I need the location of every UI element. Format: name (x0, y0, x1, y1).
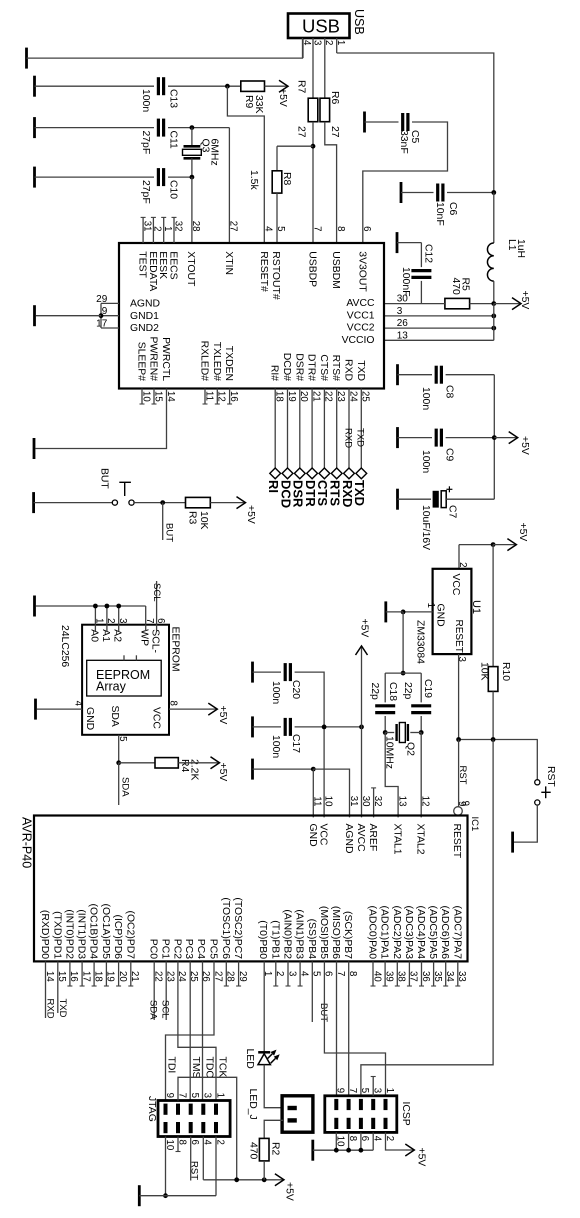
svg-text:A2: A2 (112, 629, 123, 642)
nc stub PA (421, 961, 423, 986)
svg-text:(INT0)PD2: (INT0)PD2 (63, 909, 74, 959)
svg-text:3: 3 (202, 1093, 213, 1098)
svg-text:(T1)PB1: (T1)PB1 (269, 920, 280, 959)
svg-text:EEDATA: EEDATA (147, 251, 158, 291)
svg-text:BUT: BUT (318, 1003, 329, 1022)
svg-text:(INT1)PD3: (INT1)PD3 (76, 909, 87, 959)
svg-text:5: 5 (189, 1093, 200, 1098)
ground (C8) (396, 364, 399, 385)
pin 22 SDA net stub (153, 961, 155, 1020)
svg-text:C9: C9 (444, 448, 455, 462)
capacitor C9 100n (435, 429, 438, 447)
ic U1 ZM33084 (458, 545, 460, 569)
inductor L1 1uH (493, 193, 495, 244)
svg-text:100n: 100n (420, 450, 431, 473)
wire TXD signal (360, 389, 362, 474)
svg-text:AVR-P40: AVR-P40 (20, 817, 34, 868)
node SDA/R4 (116, 760, 121, 765)
pin 3 USB D+ (312, 38, 314, 98)
wire CTS signal (323, 389, 325, 474)
node crystal bottom (190, 175, 195, 180)
wire +5V rail JTAG (203, 1179, 275, 1181)
node +5V/L1/R5 (491, 301, 496, 306)
ground (C6) (400, 182, 403, 203)
svg-text:C12: C12 (423, 244, 434, 263)
svg-text:A0: A0 (88, 629, 99, 642)
power +5V (FT232 supply) (494, 303, 521, 305)
svg-text:27pF: 27pF (140, 131, 151, 155)
svg-text:28: 28 (190, 221, 201, 232)
node VCC/C17 (322, 725, 327, 730)
pin 2 USB D- (324, 38, 326, 98)
nc stub (105, 961, 107, 986)
svg-text:4: 4 (73, 701, 84, 707)
connector ICSP (325, 1096, 397, 1133)
svg-text:TXD: TXD (355, 428, 366, 447)
ground (EEPROM addr) (33, 596, 36, 617)
svg-text:SCL: SCL (151, 583, 162, 601)
svg-text:(ADC1)PA1: (ADC1)PA1 (379, 905, 390, 959)
resistor R2 470 (259, 1138, 269, 1161)
svg-text:31: 31 (348, 796, 359, 807)
ground (C12) (396, 232, 399, 253)
svg-text:R3: R3 (187, 511, 198, 525)
wire FT232 grounds (100, 303, 102, 328)
power +5V (button pull-up) (210, 502, 245, 504)
capacitor C8 100n (435, 366, 438, 384)
svg-text:10K: 10K (198, 511, 209, 530)
svg-text:3: 3 (117, 618, 128, 623)
pin 32 AREF nc stub (373, 788, 375, 818)
svg-text:+5V: +5V (277, 88, 288, 107)
svg-text:USB: USB (302, 16, 340, 37)
pin 10 SLEEP# nc stub (141, 389, 143, 405)
svg-text:R6: R6 (329, 91, 340, 105)
nc stub (69, 961, 71, 986)
wire MISO to ICSP pin 9 (336, 961, 338, 1095)
wire RST to AVR RESET pin 9 (458, 740, 460, 807)
svg-text:3V3OUT: 3V3OUT (356, 251, 367, 292)
svg-text:Array: Array (96, 680, 127, 694)
svg-text:USB: USB (352, 9, 366, 35)
wire SCK to ICSP pin 7 (348, 961, 350, 1095)
button BUT (112, 500, 117, 505)
svg-text:VCC: VCC (450, 574, 461, 596)
pin 5 SDA (118, 735, 120, 763)
svg-text:RESET#: RESET# (258, 251, 269, 292)
pad CTS (319, 468, 330, 479)
svg-text:100n: 100n (270, 735, 281, 758)
pin 1 USB VCC (336, 38, 338, 53)
svg-text:PC0: PC0 (148, 939, 159, 959)
ground (JTAG) (138, 1185, 141, 1206)
svg-text:XTAL1: XTAL1 (392, 824, 403, 855)
svg-text:8: 8 (168, 701, 179, 706)
svg-text:5: 5 (117, 736, 128, 741)
nc stub PA (372, 961, 374, 986)
svg-text:470: 470 (450, 278, 461, 296)
wire EEPROM address ground rail (36, 605, 146, 607)
pin 23 SCL net stub (165, 961, 167, 1020)
svg-text:29: 29 (96, 294, 108, 305)
svg-text:Q2: Q2 (405, 742, 416, 756)
svg-text:C6: C6 (447, 202, 458, 216)
svg-text:DTR#: DTR# (306, 354, 317, 381)
pin 4 USB GND (302, 38, 304, 58)
connector USB (288, 14, 350, 39)
power +5V (EEPROM) (209, 708, 217, 710)
capacitor C17 100n (284, 718, 287, 736)
svg-text:TXDEN: TXDEN (223, 346, 234, 381)
svg-text:27: 27 (228, 221, 239, 232)
capacitor C6 10nF (436, 184, 439, 202)
ground (RST button) (511, 832, 514, 853)
svg-text:(RXD)PD0: (RXD)PD0 (39, 910, 50, 959)
pin 32 EECS nc stub (173, 217, 175, 243)
svg-text:+5V: +5V (416, 1148, 427, 1167)
svg-text:2: 2 (323, 40, 334, 45)
wire ICSP pin 10 ground (335, 1132, 337, 1150)
svg-text:PC4: PC4 (195, 939, 206, 959)
svg-text:30: 30 (360, 796, 371, 807)
wire C10 row / XTOUT net (35, 176, 155, 178)
pad RTS (331, 468, 342, 479)
svg-text:7: 7 (311, 226, 322, 231)
svg-text:BUT: BUT (99, 468, 110, 489)
wire JTAG pin 2 ground (215, 1137, 217, 1196)
svg-text:5: 5 (275, 226, 286, 231)
svg-text:1.5k: 1.5k (248, 170, 259, 190)
nc stub (287, 961, 289, 986)
svg-text:6MHz: 6MHz (209, 139, 220, 166)
wire XTIN net (168, 127, 229, 129)
capacitor C5 33nF (401, 113, 404, 131)
wire C13 row (35, 85, 155, 87)
ground (C7) (396, 489, 399, 510)
svg-text:(ADC3)PA3: (ADC3)PA3 (403, 905, 414, 959)
svg-text:(SCK)PB7: (SCK)PB7 (342, 911, 353, 959)
nc stub PA (433, 961, 435, 986)
power +5V (SDA pull-up) (178, 762, 219, 764)
power +5V (AVR supply) (361, 646, 363, 817)
svg-text:VCC1: VCC1 (347, 311, 375, 322)
pin 8 nc stub (177, 1137, 179, 1152)
svg-text:AREF: AREF (367, 824, 378, 852)
connector JTAG (158, 1101, 230, 1137)
svg-text:LED_J: LED_J (247, 1089, 258, 1120)
svg-text:(ADC5)PA5: (ADC5)PA5 (427, 905, 438, 959)
svg-text:TXD: TXD (352, 480, 367, 506)
svg-text:+5V: +5V (519, 291, 530, 310)
wire XTAL2 to AVR pin 12 (420, 733, 422, 818)
svg-text:TCK: TCK (216, 1057, 227, 1078)
svg-text:RI#: RI# (269, 365, 280, 381)
wire XTOUT to FT232 pin 28 (191, 177, 193, 243)
svg-text:A1: A1 (100, 629, 111, 642)
svg-text:CTS#: CTS# (318, 354, 329, 381)
svg-text:(OC1A)PD5: (OC1A)PD5 (100, 904, 111, 960)
nc stub (299, 961, 301, 986)
svg-text:SDA: SDA (120, 777, 131, 797)
svg-text:12: 12 (420, 796, 431, 807)
wire GND pin 11 (312, 769, 314, 817)
nc stub PA (384, 961, 386, 986)
svg-text:24LC256: 24LC256 (59, 625, 70, 667)
pin 1 EESK nc stub (163, 217, 165, 243)
svg-text:(ADC6)PA6: (ADC6)PA6 (439, 905, 450, 959)
pin 15 PWREN# nc stub (153, 389, 155, 405)
svg-text:6: 6 (361, 226, 372, 231)
svg-text:6: 6 (155, 618, 166, 623)
pin 3 nc stub (372, 1077, 374, 1096)
wire DTR signal (311, 389, 313, 474)
svg-text:RST: RST (545, 766, 556, 787)
pad RI (270, 468, 281, 479)
svg-text:RXD: RXD (343, 359, 354, 381)
ground (C13) (33, 76, 36, 97)
svg-text:VCCIO: VCCIO (342, 335, 375, 346)
svg-text:PC2: PC2 (171, 939, 182, 959)
capacitor C20 100n (284, 663, 287, 681)
wire RTS signal (336, 389, 338, 474)
svg-text:(OC1B)PD4: (OC1B)PD4 (88, 904, 99, 960)
crystal Q2 10MHz (385, 732, 394, 734)
svg-text:TDI: TDI (166, 1057, 177, 1074)
svg-text:1: 1 (384, 1088, 395, 1093)
wire LED_J to R2 (264, 1120, 283, 1138)
svg-text:U1: U1 (470, 600, 482, 614)
svg-text:10: 10 (322, 796, 333, 807)
wire ICSP pin 4 ground (372, 1132, 374, 1150)
wire USB VCC to L1 (337, 53, 494, 193)
resistor R10 10K (492, 545, 494, 667)
svg-text:22p: 22p (402, 682, 413, 700)
svg-text:XTIN: XTIN (223, 251, 234, 275)
ground (C17) (251, 716, 254, 737)
pin 9 RESET bubble (454, 807, 463, 816)
ground (C20) (251, 662, 254, 683)
wire C20 to AVR VCC (295, 672, 325, 817)
pin 2 A1 (106, 606, 108, 625)
svg-text:C7: C7 (447, 505, 458, 519)
capacitor C10 27pF (157, 168, 160, 186)
node XTAL1 (383, 730, 388, 735)
svg-text:TXD: TXD (355, 360, 366, 381)
svg-text:13: 13 (397, 330, 409, 341)
svg-text:RXD: RXD (342, 428, 353, 448)
wire SDA to R4 (119, 762, 155, 764)
pin 1 U1 GND (403, 611, 433, 613)
node RESET# RC junction (225, 84, 230, 89)
svg-text:SDA: SDA (109, 706, 120, 727)
svg-text:27pF: 27pF (140, 180, 151, 204)
svg-text:+5V: +5V (217, 706, 228, 725)
svg-text:+5V: +5V (519, 436, 530, 455)
svg-text:JTAG: JTAG (146, 1096, 157, 1122)
svg-text:TXLED#: TXLED# (211, 342, 222, 381)
node USBDP / R8 (311, 144, 316, 149)
svg-text:8: 8 (335, 226, 346, 231)
svg-text:RTS#: RTS# (330, 355, 341, 382)
svg-text:PC3: PC3 (183, 939, 194, 959)
svg-text:100nF: 100nF (400, 267, 411, 296)
resistor R9 33K (241, 81, 265, 91)
capacitor C11 27pF (157, 119, 160, 137)
svg-text:R8: R8 (281, 172, 292, 186)
svg-text:PWRCTL: PWRCTL (160, 337, 171, 381)
pin 4 GND (37, 708, 82, 710)
svg-text:(AIN0)PB2: (AIN0)PB2 (282, 909, 293, 959)
resistor R4 2.2K (155, 758, 178, 768)
wire BUT net stub (162, 503, 164, 540)
capacitor C18 22p (384, 673, 386, 702)
svg-text:VCC2: VCC2 (347, 323, 375, 334)
wire AVR ground rail (253, 768, 314, 770)
wire C11 row / XTIN net (35, 127, 155, 129)
ground (USB shield/GND rail top-left) (25, 48, 28, 69)
svg-text:PWREN#: PWREN# (148, 337, 159, 382)
wire TCK to JTAG pin 1 (178, 961, 216, 1100)
svg-text:USBDM: USBDM (330, 251, 341, 289)
svg-text:RESET: RESET (451, 824, 462, 859)
svg-text:AVCC: AVCC (346, 298, 375, 309)
pad TXD (356, 468, 367, 479)
pad DTR (307, 468, 318, 479)
svg-text:GND: GND (307, 824, 318, 847)
power +5V (decoupling bank) (494, 437, 517, 439)
wire C6 to VCC line (447, 192, 494, 194)
svg-text:+5V: +5V (517, 523, 528, 542)
svg-text:4: 4 (263, 226, 274, 232)
pin 14 RXD net stub (45, 961, 47, 1018)
node +5V C9 (492, 435, 497, 440)
resistor R3 10K (186, 497, 211, 507)
svg-text:C8: C8 (444, 385, 455, 399)
wire LED to LED_J (264, 1065, 283, 1108)
ground (PWRCTL) (33, 438, 36, 459)
resistor R8 1.5k (276, 146, 278, 171)
wire +5V row U1 (459, 544, 493, 546)
power +5V (JTAG) (276, 1179, 284, 1181)
svg-text:TEST: TEST (137, 251, 148, 278)
pin 12 TXLED# nc stub (216, 389, 218, 405)
wire button to R3 (134, 502, 185, 504)
svg-text:RESET: RESET (453, 620, 464, 653)
wire ICSP pin 2 to +5V (386, 1132, 407, 1150)
power +5V (reset pull-up) (265, 85, 289, 87)
wire TDI to JTAG pin 9 (166, 961, 215, 1100)
svg-text:C11: C11 (168, 131, 179, 150)
wire VCC2 row pin 26 (384, 327, 494, 329)
pin 5 BUT net stub (311, 961, 313, 1022)
ground (U1) (384, 601, 387, 622)
svg-text:C20: C20 (290, 680, 301, 699)
svg-text:(TOSC2)PC7: (TOSC2)PC7 (232, 897, 243, 959)
svg-text:13: 13 (396, 796, 407, 807)
pin 2 EEDATA nc stub (152, 217, 154, 243)
wire RST button to ground (514, 805, 537, 842)
svg-text:+5V: +5V (359, 619, 370, 638)
svg-text:GND: GND (84, 707, 95, 730)
wire JTAG pin 4 to +5V rail (202, 1137, 204, 1180)
pin 31 TEST nc stub (142, 217, 144, 243)
resistor R7 27 (308, 98, 318, 122)
wire TDO to JTAG pin 3 (202, 961, 204, 1100)
wire USBDM net to FT232 pin 8 (325, 122, 337, 243)
svg-text:XTOUT: XTOUT (185, 251, 196, 287)
nc stub PA (457, 961, 459, 986)
svg-text:EEPROM: EEPROM (170, 627, 181, 672)
svg-text:AGND: AGND (343, 824, 354, 854)
svg-text:1: 1 (335, 40, 346, 45)
svg-text:30: 30 (397, 294, 409, 305)
svg-text:SCL: SCL (160, 1000, 171, 1018)
wire C13 to R9 node (168, 85, 241, 87)
svg-text:32: 32 (372, 796, 383, 807)
crystal Q3 6MHz (191, 128, 193, 147)
ground (C9) (396, 427, 399, 448)
svg-text:11: 11 (312, 796, 323, 806)
pin 15 TXD net stub (57, 961, 59, 1013)
svg-text:(TXD)PD1: (TXD)PD1 (51, 911, 62, 959)
pin 7 WP (145, 606, 147, 625)
nc stub (275, 961, 277, 986)
node VCC/C6 (491, 190, 496, 195)
svg-text:+5V: +5V (217, 763, 228, 782)
wire crystal ground rail (385, 672, 421, 674)
svg-text:+5V: +5V (245, 505, 256, 524)
svg-text:R10: R10 (500, 662, 511, 681)
led LED (258, 1051, 270, 1054)
wire R2 to +5V rail (263, 1161, 265, 1180)
pin 14 PWRCTL to ground (36, 389, 167, 449)
ic FT232BM (119, 243, 384, 389)
nc stub PA (408, 961, 410, 986)
svg-text:R7: R7 (296, 80, 307, 94)
button RST (536, 740, 538, 780)
ground (EEPROM) (34, 699, 37, 720)
svg-text:ICSP: ICSP (400, 1102, 411, 1126)
nc stub (130, 961, 132, 986)
svg-text:10uF/16V: 10uF/16V (420, 505, 431, 550)
svg-text:TDO: TDO (203, 1057, 214, 1079)
nc stub PA (445, 961, 447, 986)
ground (FT232) (33, 305, 36, 326)
svg-text:9: 9 (164, 1093, 175, 1098)
svg-text:(ADC2)PA2: (ADC2)PA2 (391, 905, 402, 959)
svg-text:AVCC: AVCC (355, 824, 366, 853)
wire RST row (459, 739, 538, 741)
svg-text:DCD#: DCD# (281, 353, 292, 382)
wire ICSP pin 6 ground (360, 1132, 362, 1150)
svg-text:3: 3 (311, 40, 322, 45)
svg-text:XTAL2: XTAL2 (415, 824, 426, 855)
svg-text:26: 26 (397, 318, 409, 329)
ground (C10) (33, 167, 36, 188)
svg-text:7: 7 (144, 618, 155, 623)
wire ICSP pin 8 ground (348, 1132, 350, 1150)
pin 1 A0 (94, 606, 96, 625)
svg-text:PC5: PC5 (208, 939, 219, 959)
capacitor C7 10uF/16V polarized (433, 491, 439, 508)
svg-text:PC1: PC1 (160, 939, 171, 959)
svg-text:7: 7 (347, 1088, 358, 1093)
svg-text:VCC: VCC (318, 824, 329, 846)
pin 6 SCL (156, 581, 158, 625)
wire TMS to JTAG pin 5 (189, 961, 191, 1100)
capacitor C13 100n (157, 77, 160, 95)
svg-text:RST: RST (188, 1161, 199, 1180)
